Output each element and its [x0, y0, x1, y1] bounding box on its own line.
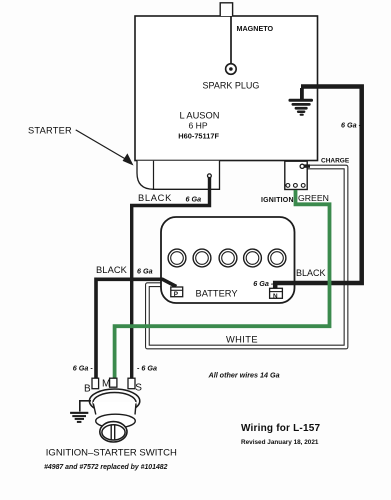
battery cell cap 5	[268, 249, 286, 267]
switch terminal lug S	[128, 378, 135, 389]
magneto box	[220, 3, 232, 16]
wire black 6Ga engine ground to battery N	[275, 87, 362, 290]
svg-text:M: M	[102, 378, 110, 389]
svg-text:BLACK: BLACK	[96, 265, 128, 275]
ground (engine, signal ground symbol)	[289, 88, 314, 116]
svg-text:GREEN: GREEN	[298, 193, 329, 203]
svg-text:Revised January 18, 2021: Revised January 18, 2021	[241, 439, 319, 446]
charge terminal	[300, 164, 310, 168]
white wire (charge to battery P) outline	[147, 167, 346, 347]
engine box (Lauson 6 HP)	[135, 16, 318, 161]
svg-text:All other wires 14 Ga: All other wires 14 Ga	[208, 370, 280, 379]
svg-text:B: B	[84, 384, 91, 395]
svg-text:#4987 and #7572 replaced by #1: #4987 and #7572 replaced by #101482	[44, 464, 168, 471]
ignition-starter switch body	[89, 389, 139, 442]
spark plug	[226, 64, 237, 75]
wire green ignition to switch M	[115, 190, 330, 379]
svg-text:STARTER: STARTER	[28, 126, 72, 136]
battery	[161, 217, 295, 303]
svg-text:H60-75117F: H60-75117F	[178, 131, 219, 140]
ground (switch)	[70, 401, 91, 423]
svg-text:IGNITION–STARTER SWITCH: IGNITION–STARTER SWITCH	[46, 448, 177, 459]
svg-text:6 Ga: 6 Ga	[186, 195, 202, 204]
ignition connector (3-pin)	[285, 161, 307, 189]
svg-text:L AUSON: L AUSON	[180, 110, 220, 120]
starter terminal	[208, 174, 212, 178]
battery cell cap 1	[168, 249, 186, 267]
wire magneto to spark plug	[230, 16, 232, 64]
svg-text:- 6 Ga: - 6 Ga	[137, 363, 157, 372]
starter housing	[137, 161, 220, 190]
svg-text:BLACK: BLACK	[138, 193, 172, 203]
switch terminal lug M	[110, 378, 117, 387]
svg-text:6 HP: 6 HP	[189, 120, 208, 130]
battery terminal N	[270, 288, 283, 300]
battery cell cap 3	[219, 249, 237, 267]
svg-text:BATTERY: BATTERY	[196, 289, 238, 299]
svg-text:SPARK PLUG: SPARK PLUG	[203, 81, 260, 91]
svg-text:6 Ga -: 6 Ga -	[253, 279, 274, 288]
svg-text:P: P	[174, 291, 179, 298]
wire black 6Ga switch B to battery P	[96, 279, 176, 379]
battery cell cap 4	[244, 249, 262, 267]
svg-text:CHARGE: CHARGE	[321, 157, 350, 164]
svg-text:Wiring for L-157: Wiring for L-157	[241, 423, 320, 434]
svg-text:MAGNETO: MAGNETO	[237, 24, 274, 33]
svg-text:IGNITION: IGNITION	[261, 197, 294, 204]
wire black 6Ga starter to switch S	[132, 177, 210, 379]
svg-text:N: N	[273, 293, 278, 300]
svg-text:6 Ga -: 6 Ga -	[341, 120, 362, 129]
leader arrow to starter	[76, 130, 134, 166]
svg-text:S: S	[135, 382, 142, 393]
battery terminal P	[171, 287, 183, 298]
switch terminal lug B	[92, 378, 99, 389]
svg-text:6 Ga: 6 Ga	[137, 266, 153, 275]
svg-text:BLACK: BLACK	[296, 268, 326, 278]
svg-text:WHITE: WHITE	[226, 334, 258, 344]
svg-text:6 Ga -: 6 Ga -	[73, 363, 94, 372]
battery cell cap 2	[193, 249, 211, 267]
